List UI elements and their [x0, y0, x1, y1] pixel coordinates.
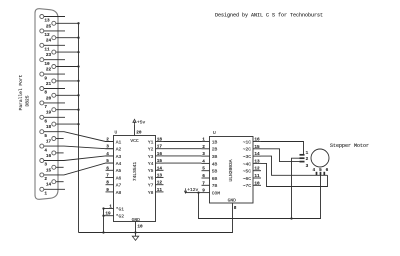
wire: U1 Y1 to U2 1B — [164, 141, 202, 143]
svg-text:1: 1 — [306, 151, 309, 156]
U1 output pin names Y1-Y8 — [148, 139, 154, 195]
svg-text:U: U — [115, 130, 118, 136]
svg-text:~4C: ~4C — [243, 161, 252, 167]
svg-text:4: 4 — [202, 159, 205, 164]
wire: +12v rail down and right to motor commons — [199, 175, 321, 218]
wires: unconnected stubs on DB25 pins 17,16,15,14 — [56, 139, 64, 182]
svg-text:21: 21 — [46, 82, 52, 87]
motor left terminal pins 1,2,3 — [300, 155, 305, 162]
power symbol +5v — [133, 119, 136, 124]
svg-text:15: 15 — [46, 168, 52, 173]
svg-text:4: 4 — [312, 168, 315, 173]
svg-text:16: 16 — [46, 154, 52, 159]
svg-text:A7: A7 — [116, 183, 122, 189]
svg-text:15: 15 — [254, 145, 260, 150]
svg-text:*G2: *G2 — [116, 214, 125, 220]
motor M1 stepper motor circle — [311, 149, 329, 167]
svg-text:12: 12 — [254, 167, 260, 172]
wires: DB25 pins 25-18 to ground rail — [56, 23, 78, 124]
wire: DB25 pin 4 to U1 A2 — [44, 146, 114, 149]
junction dot U1 GND at ground rail — [134, 231, 136, 233]
svg-text:8: 8 — [44, 91, 47, 96]
svg-text:*G1: *G1 — [116, 206, 125, 212]
connector X1 left pin numbers 13..1 — [44, 19, 50, 197]
U2 output pin numbers 16-10 — [254, 138, 260, 187]
wire: U2 1C (pin16) to motor terminal 1 — [261, 142, 304, 155]
wire: DB25 pin 2 to U1 A4 — [44, 163, 114, 175]
U2 input pin numbers 1-7,9 — [202, 138, 205, 194]
svg-text:20: 20 — [46, 96, 52, 101]
svg-text:18: 18 — [157, 138, 163, 143]
svg-text:15: 15 — [157, 159, 163, 164]
op IC U1 74LS541 box — [114, 136, 156, 222]
U2 input pin names 1B-7B, COM — [212, 139, 221, 196]
svg-text:A6: A6 — [116, 175, 122, 181]
svg-text:10: 10 — [137, 225, 143, 230]
svg-text:5: 5 — [202, 167, 205, 172]
svg-text:ULN2003A: ULN2003A — [228, 159, 234, 181]
junction dot on +12v wire — [197, 191, 199, 193]
svg-text:Designed by ANIL C S for Techn: Designed by ANIL C S for Technoburst — [215, 13, 323, 19]
svg-text:17: 17 — [157, 145, 163, 150]
svg-text:19: 19 — [46, 111, 52, 116]
svg-text:6: 6 — [106, 166, 109, 171]
connector X1 DB25 parallel port body — [35, 9, 58, 200]
svg-text:5B: 5B — [212, 169, 218, 175]
svg-text:A4: A4 — [116, 161, 122, 167]
svg-text:Y5: Y5 — [148, 168, 154, 174]
svg-text:VCC: VCC — [130, 138, 139, 144]
svg-text:25: 25 — [46, 24, 52, 29]
wires: unconnected stubs on DB25 pins 13,12,11,10,9,8,7,6,1 — [44, 17, 65, 190]
svg-text:Y2: Y2 — [148, 147, 154, 153]
svg-text:1: 1 — [44, 192, 47, 197]
svg-text:2: 2 — [202, 145, 205, 150]
motor left terminal numbers 1,2,3 — [306, 151, 309, 169]
svg-text:3: 3 — [44, 163, 47, 168]
wire: U2 2C (pin15) to motor terminal 3 — [261, 149, 300, 162]
svg-text:11: 11 — [157, 188, 163, 193]
svg-text:4B: 4B — [212, 161, 218, 167]
svg-text:Y8: Y8 — [148, 190, 154, 196]
svg-text:5: 5 — [106, 159, 109, 164]
svg-text:A8: A8 — [116, 190, 122, 196]
svg-text:COM: COM — [212, 191, 221, 197]
svg-text:Y6: Y6 — [148, 175, 154, 181]
svg-text:U: U — [213, 130, 216, 136]
svg-text:9: 9 — [202, 189, 205, 194]
svg-text:13: 13 — [44, 19, 50, 24]
wire: G1/G2 tie-down to ground rail — [103, 209, 105, 233]
svg-text:A3: A3 — [116, 154, 122, 160]
wire: U1 Y2 to U2 2B — [164, 148, 202, 150]
motor bottom terminal numbers 4,5,6 — [312, 168, 328, 173]
svg-text:3: 3 — [106, 145, 109, 150]
U2 output pin stubs 1C-7C (pins 16-10) — [253, 142, 261, 186]
svg-text:11: 11 — [44, 48, 50, 53]
wire: +12v branch to motor terminal 2 — [292, 158, 300, 218]
U1 input pin names A1-A8 — [116, 139, 122, 195]
U1 output pin stubs Y1-Y8 (pins 18-11) — [156, 142, 164, 192]
svg-text:6: 6 — [326, 168, 329, 173]
U2 input pin stubs 1B-7B,COM (pins 1-7,9) — [202, 142, 210, 193]
svg-text:DB25: DB25 — [25, 95, 31, 106]
svg-text:5: 5 — [319, 168, 322, 173]
svg-text:7B: 7B — [212, 183, 218, 189]
driver IC U2 ULN2003A box — [210, 137, 254, 204]
svg-text:6B: 6B — [212, 176, 218, 182]
svg-text:~3C: ~3C — [243, 154, 252, 160]
svg-text:16: 16 — [157, 152, 163, 157]
power symbol +12v — [184, 188, 187, 193]
svg-text:6: 6 — [44, 120, 47, 125]
svg-text:74LS541: 74LS541 — [132, 162, 138, 182]
svg-text:13: 13 — [254, 159, 260, 164]
svg-text:13: 13 — [157, 174, 163, 179]
wire: +12v to U2 COM pin 9 — [186, 192, 202, 194]
svg-text:1: 1 — [202, 138, 205, 143]
svg-text:Y7: Y7 — [148, 183, 154, 189]
wire: U1 Y4 to U2 4B — [164, 162, 202, 164]
svg-text:22: 22 — [46, 68, 52, 73]
wire: U2 4C (pin13) to motor terminal 6 — [261, 163, 328, 186]
svg-text:12: 12 — [157, 181, 163, 186]
U2 GND pin 8 wire down to ground rail — [79, 203, 233, 232]
wire: U2 3C (pin14) to motor terminal 4 — [261, 156, 328, 175]
svg-text:2: 2 — [306, 157, 309, 162]
U1 input pin numbers 2-9 — [106, 138, 109, 193]
svg-text:16: 16 — [254, 138, 260, 143]
svg-text:3: 3 — [202, 152, 205, 157]
U1 enable pin G2 (pin 19) stub — [104, 215, 114, 217]
wire: DB25 pin 5 to U1 A1 — [44, 132, 114, 142]
svg-text:Y4: Y4 — [148, 161, 154, 167]
junction dot +12v rail branch — [290, 217, 292, 219]
svg-text:17: 17 — [46, 140, 52, 145]
svg-text:10: 10 — [254, 181, 260, 186]
wire: ground rail vertical from DB25 — [78, 23, 80, 232]
svg-text:19: 19 — [105, 212, 111, 217]
svg-text:3B: 3B — [212, 154, 218, 160]
svg-text:12: 12 — [44, 33, 50, 38]
svg-text:2B: 2B — [212, 147, 218, 153]
svg-text:5: 5 — [44, 134, 47, 139]
svg-text:8: 8 — [234, 206, 237, 211]
junction dots on ground rail at pins 25-18 — [77, 22, 79, 125]
wire: DB25 pin 3 to U1 A3 — [44, 156, 114, 161]
svg-text:8: 8 — [106, 181, 109, 186]
svg-text:~5C: ~5C — [243, 169, 252, 175]
U2 output pin names ~1C-~7C — [243, 139, 252, 189]
svg-text:Y1: Y1 — [148, 139, 154, 145]
U1 enable pin G1 (pin 1) stub — [104, 208, 114, 210]
svg-text:7: 7 — [44, 105, 47, 110]
svg-text:Y3: Y3 — [148, 154, 154, 160]
svg-text:7: 7 — [202, 181, 205, 186]
svg-text:4: 4 — [106, 152, 109, 157]
svg-text:~7C: ~7C — [243, 183, 252, 189]
motor bottom terminal pins 4,5,6 — [317, 172, 325, 176]
connector X1 right column pin circles (pins 25..14) — [52, 21, 56, 183]
svg-text:3: 3 — [306, 164, 309, 169]
connector X1 left column pin circles (pins 13..1) — [40, 15, 44, 192]
svg-text:~6C: ~6C — [243, 176, 252, 182]
svg-text:23: 23 — [46, 53, 52, 58]
svg-text:24: 24 — [46, 39, 52, 44]
svg-text:GND: GND — [228, 198, 237, 204]
svg-text:10: 10 — [44, 62, 50, 67]
svg-text:~2C: ~2C — [243, 147, 252, 153]
svg-text:11: 11 — [254, 174, 260, 179]
svg-text:6: 6 — [202, 174, 205, 179]
U1 input pin stubs A1-A8 (pins 2-9) — [106, 142, 114, 192]
svg-text:14: 14 — [254, 152, 260, 157]
svg-text:7: 7 — [106, 174, 109, 179]
wire: U1 Y3 to U2 3B — [164, 155, 202, 157]
svg-text:+5v: +5v — [137, 120, 146, 126]
connector X1 right pin numbers 25..14 — [46, 24, 52, 187]
junction dots G1 G2 and rail — [102, 207, 104, 233]
svg-text:A5: A5 — [116, 168, 122, 174]
U1 output pin numbers 18-11 — [157, 138, 163, 193]
ground symbol GND — [132, 236, 138, 240]
svg-text:A2: A2 — [116, 147, 122, 153]
svg-text:~1C: ~1C — [243, 139, 252, 145]
svg-text:Parallel Port: Parallel Port — [18, 74, 24, 110]
svg-text:9: 9 — [106, 188, 109, 193]
svg-text:2: 2 — [106, 138, 109, 143]
svg-text:1B: 1B — [212, 139, 218, 145]
U1 VCC pin 20 stub — [134, 125, 136, 136]
svg-text:9: 9 — [44, 76, 47, 81]
svg-text:4: 4 — [44, 148, 47, 153]
svg-text:14: 14 — [157, 166, 163, 171]
svg-text:18: 18 — [46, 125, 52, 130]
U1 GND pin 10 stub down — [135, 222, 137, 237]
svg-text:2: 2 — [44, 177, 47, 182]
svg-text:14: 14 — [46, 183, 52, 188]
svg-text:Stepper Motor: Stepper Motor — [330, 143, 369, 149]
svg-text:20: 20 — [136, 130, 142, 135]
svg-text:A1: A1 — [116, 139, 122, 145]
svg-text:1: 1 — [109, 204, 112, 209]
